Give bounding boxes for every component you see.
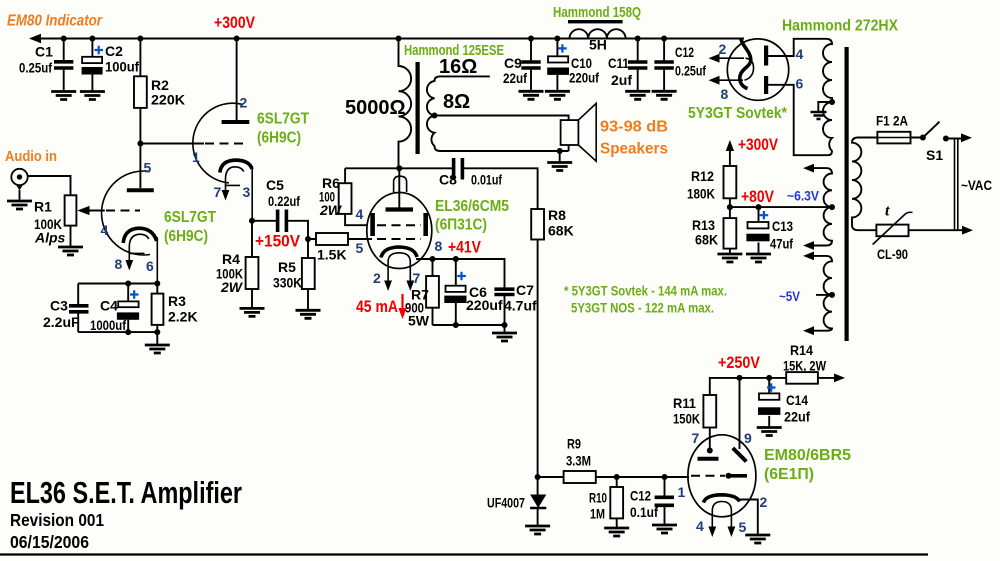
svg-text:2uf: 2uf (611, 72, 632, 88)
ground R5 (296, 310, 321, 318)
node rail-C9 (528, 36, 534, 42)
svg-text:C1: C1 (35, 44, 53, 60)
ground C13 (746, 254, 771, 262)
svg-text:C14: C14 (786, 392, 808, 408)
ground UF4007 (525, 526, 550, 534)
svg-text:Speakers: Speakers (600, 141, 668, 158)
capacitor C12 0.1uf (664, 477, 666, 525)
svg-text:5: 5 (739, 519, 747, 535)
svg-text:7: 7 (214, 184, 222, 200)
svg-text:C11: C11 (608, 55, 629, 71)
wire +300V rail (31, 38, 744, 40)
PT HV winding (823, 39, 832, 155)
svg-text:C12: C12 (675, 44, 694, 60)
choke core (568, 20, 623, 23)
svg-text:+300V: +300V (738, 135, 779, 154)
V1a plate lead (139, 144, 141, 189)
svg-text:3.3M: 3.3M (566, 453, 591, 469)
capacitor C11 2uf (637, 39, 639, 61)
EL36 plate lead (398, 168, 400, 207)
PT 5V winding (812, 256, 832, 331)
node R10 top (614, 474, 620, 480)
node pin9 (737, 375, 743, 381)
resistor R2 220K (139, 39, 141, 144)
svg-text:2: 2 (373, 270, 381, 286)
svg-text:5W: 5W (408, 313, 430, 329)
ground C10 (545, 91, 570, 99)
svg-text:5: 5 (356, 240, 364, 256)
ground R3 (145, 345, 170, 353)
svg-text:~VAC: ~VAC (961, 177, 992, 193)
svg-text:R12: R12 (691, 168, 714, 184)
capacitor C9 22uf (530, 39, 532, 61)
ground R10 (604, 528, 629, 536)
svg-text:22uf: 22uf (784, 409, 810, 425)
ground C11 (625, 91, 650, 99)
V1a plate (127, 188, 154, 192)
ground C14 (757, 428, 782, 436)
capacitor C10 220uf (556, 39, 558, 57)
svg-text:1: 1 (678, 484, 686, 500)
svg-text:2W: 2W (220, 279, 244, 295)
svg-text:C7: C7 (516, 282, 534, 298)
capacitor C2 100uf (91, 39, 93, 57)
svg-text:(6H9C): (6H9C) (257, 130, 301, 147)
capacitor C14 22uf (768, 378, 770, 428)
V1b cathode (220, 160, 252, 172)
svg-text:2W: 2W (319, 202, 343, 218)
node rail-C1 (61, 36, 67, 42)
5Y3 plate pin 4 (764, 46, 768, 66)
capacitor C7 4.7uf (494, 289, 514, 294)
EL36 plate (386, 207, 414, 211)
svg-text:16Ω: 16Ω (439, 56, 477, 78)
triode V1b 6SL7GT envelope (193, 103, 243, 183)
resistor R14 15K 2W (786, 372, 818, 384)
svg-text:68K: 68K (695, 232, 718, 248)
diode UF4007 (537, 477, 539, 526)
EM80 grid (dashed) (691, 475, 725, 477)
capacitor C5 0.22uf (252, 221, 308, 239)
5Y3 filament arrows pins 2,8 (713, 57, 744, 59)
5Y3 plate pin 6 (764, 76, 768, 94)
EL36 top cap (394, 176, 407, 192)
switch S1 (920, 135, 926, 141)
node speaker ground (557, 148, 563, 154)
svg-text:6SL7GT: 6SL7GT (257, 111, 309, 128)
choke Hammond 158Q 5H (570, 29, 626, 38)
ground EM80 cathode (745, 535, 770, 543)
resistor R7 900 5W (432, 259, 434, 325)
svg-text:68K: 68K (548, 223, 574, 239)
svg-text:C4: C4 (100, 298, 118, 314)
resistor R11 150K (703, 395, 716, 428)
svg-text:R3: R3 (168, 293, 186, 309)
svg-text:R9: R9 (567, 436, 581, 452)
svg-text:Hammond 158Q: Hammond 158Q (553, 4, 641, 21)
capacitor C3 2.2uF (77, 284, 79, 333)
svg-text:220K: 220K (151, 92, 185, 108)
ground C12b (652, 525, 677, 533)
capacitor C4 1000uf (127, 284, 129, 333)
svg-text:5000Ω: 5000Ω (345, 97, 406, 119)
EL36 cathode (381, 247, 417, 258)
node rail-V1b plate (234, 36, 240, 42)
node C12b top (662, 474, 668, 480)
EL36 grid1 (dashed) pin 5 (368, 238, 373, 240)
svg-text:+250V: +250V (718, 353, 761, 372)
node UF4007 (535, 474, 541, 480)
ground C2 (80, 92, 105, 100)
svg-text:EL36/6CM5: EL36/6CM5 (435, 198, 509, 215)
svg-text:0.22uf: 0.22uf (268, 193, 300, 209)
node rail-R2 (137, 36, 143, 42)
svg-text:UF4007: UF4007 (487, 495, 525, 511)
svg-text:4: 4 (796, 46, 804, 62)
PT 6.3V winding (812, 168, 832, 245)
svg-text:4: 4 (101, 222, 109, 238)
svg-text:2.2K: 2.2K (168, 309, 198, 325)
V1b plate (222, 120, 250, 124)
wire jack to R1 (28, 176, 71, 195)
wire 6.3V tap to +80V (730, 206, 832, 208)
svg-text:1000uf: 1000uf (90, 317, 126, 333)
resistor R8 68K (531, 209, 544, 240)
svg-text:3: 3 (243, 184, 251, 200)
wire V1a plate to V1b grid (140, 143, 204, 145)
EL36 grid2 (dashed) pin 4 (377, 224, 421, 226)
wiper arrow R1 (86, 210, 105, 212)
speaker (561, 120, 579, 145)
svg-text:S1: S1 (926, 147, 943, 163)
resistor R9 3.3M (538, 476, 665, 478)
node HV center tap (829, 99, 835, 105)
V1a bottom wire (78, 331, 157, 333)
node R3 top (154, 281, 160, 287)
node C7 ground (502, 322, 508, 328)
svg-text:8: 8 (435, 238, 443, 254)
resistor R5 330K (307, 239, 309, 310)
node C6 top (453, 256, 459, 262)
svg-text:Alps: Alps (34, 230, 66, 246)
svg-text:45 mA: 45 mA (356, 297, 398, 316)
svg-text:330K: 330K (273, 275, 302, 291)
node R7 top (430, 256, 436, 262)
resistor R13 68K (729, 207, 731, 254)
pentode EL36 envelope (367, 193, 432, 269)
EM80 grid wire (665, 476, 690, 478)
svg-text:EL36 S.E.T. Amplifier: EL36 S.E.T. Amplifier (10, 475, 242, 510)
ground EL36 cathode (492, 333, 517, 341)
node C5/R5/1.5K (305, 236, 311, 242)
EL36 cathode bottom wire (433, 324, 505, 326)
svg-text:06/15/2006: 06/15/2006 (10, 532, 89, 552)
wire R6 to plate node (345, 167, 399, 169)
V1b heater (226, 167, 244, 194)
svg-text:2: 2 (240, 95, 248, 111)
svg-text:0.1uf: 0.1uf (630, 504, 658, 520)
EM80 heater (712, 502, 731, 532)
ground RCA (7, 201, 32, 209)
EM80 cathode lead pin 2 (739, 500, 758, 536)
node +80V (727, 204, 733, 210)
svg-text:1.5K: 1.5K (317, 247, 347, 263)
V1b plate lead (236, 39, 238, 121)
svg-text:(6Е1П): (6Е1П) (764, 466, 814, 483)
EM80 target pin 9 (739, 378, 741, 449)
node EL36 plate (396, 165, 402, 171)
PT core (845, 47, 849, 341)
node C6 bottom (453, 322, 459, 328)
svg-text:+41V: +41V (448, 238, 482, 257)
svg-text:t: t (885, 203, 890, 220)
EM80 cathode (704, 495, 740, 503)
svg-text:~6.3V: ~6.3V (787, 189, 819, 204)
node 8ohm tap (432, 113, 438, 119)
OT secondary winding (427, 76, 569, 151)
svg-text:EM80 Indicator: EM80 Indicator (7, 13, 103, 30)
svg-text:7: 7 (413, 270, 421, 286)
svg-text:7: 7 (692, 430, 700, 446)
svg-text:6: 6 (796, 76, 804, 92)
resistor R6 100 2W (345, 168, 367, 225)
node rail-C12 (661, 36, 667, 42)
potentiometer R1 100K (65, 195, 77, 225)
svg-text:(6H9C): (6H9C) (164, 228, 208, 245)
node C4 top (125, 281, 131, 287)
svg-text:C8: C8 (439, 172, 457, 188)
svg-text:EM80/6BR5: EM80/6BR5 (764, 447, 851, 464)
svg-text:2: 2 (719, 41, 727, 57)
svg-text:C2: C2 (105, 43, 123, 59)
svg-text:220uf: 220uf (466, 297, 503, 313)
resistor 1.5K grid stopper (308, 238, 368, 240)
wire +250V bus (710, 378, 835, 395)
svg-text:Audio in: Audio in (5, 148, 57, 165)
svg-text:8: 8 (115, 256, 123, 272)
arrow to EM80 indicator (29, 34, 41, 44)
svg-text:8: 8 (721, 86, 729, 102)
svg-text:9: 9 (744, 430, 752, 446)
svg-text:100uf: 100uf (105, 59, 139, 75)
capacitor C1 (63, 39, 65, 61)
node V1b cathode / C5 (249, 218, 255, 224)
svg-text:C12: C12 (630, 488, 651, 504)
node rail-C2 (89, 36, 95, 42)
mains cord double line (955, 139, 958, 232)
ground C1 (51, 92, 76, 100)
capacitor C13 47uf (758, 207, 760, 254)
svg-text:2.2uF: 2.2uF (43, 314, 80, 330)
svg-text:4: 4 (356, 206, 364, 222)
OT core (416, 62, 420, 154)
svg-text:R8: R8 (548, 207, 566, 223)
svg-text:15K, 2W: 15K, 2W (783, 358, 827, 374)
node R2-plate junction (137, 141, 143, 147)
svg-text:93-98 dB: 93-98 dB (600, 119, 668, 136)
svg-text:22uf: 22uf (503, 70, 527, 86)
svg-text:~5V: ~5V (779, 289, 800, 304)
ground R4 (240, 308, 265, 316)
svg-text:Revision 001: Revision 001 (10, 510, 104, 530)
ground R13 (717, 254, 742, 262)
V1a grid (dashed) (106, 210, 140, 212)
resistor R10 1M (616, 477, 618, 528)
thermistor CL-90 (858, 229, 963, 231)
node rail-C11 (635, 36, 641, 42)
tube EM80 envelope (688, 435, 756, 517)
svg-text:F1 2A: F1 2A (876, 113, 908, 129)
V1b grid (dashed) (205, 143, 246, 145)
svg-text:5Y3GT NOS - 122 mA max.: 5Y3GT NOS - 122 mA max. (571, 301, 714, 316)
svg-text:180K: 180K (687, 186, 715, 202)
ground C9 (519, 91, 544, 99)
V1a heater (129, 234, 149, 264)
svg-text:R5: R5 (278, 259, 296, 275)
5Y3 filament (740, 39, 751, 89)
svg-text:C13: C13 (772, 218, 793, 234)
node rail-C10 (554, 36, 560, 42)
svg-text:5: 5 (144, 160, 152, 176)
EL36 beam plates (370, 213, 375, 236)
svg-text:1: 1 (192, 149, 200, 165)
resistor R12 180K (729, 166, 731, 207)
bottom border line (0, 553, 928, 555)
EL36 cathode lead pin 8 (416, 259, 505, 288)
resistor R3 2.2K (156, 284, 158, 346)
node C14 top (766, 375, 772, 381)
svg-text:47uf: 47uf (770, 236, 793, 252)
node C4 bottom (125, 329, 131, 335)
svg-text:2: 2 (760, 494, 768, 510)
triode V1a 6SL7GT envelope (102, 171, 150, 255)
V1a cathode (123, 228, 156, 243)
svg-text:8Ω: 8Ω (443, 91, 470, 113)
rectifier 5Y3GT envelope (727, 39, 788, 100)
node 6.3V tap (829, 204, 835, 210)
EM80 triode plate pin 7 (698, 457, 719, 461)
svg-text:0.25uf: 0.25uf (19, 60, 52, 76)
ground R1 (58, 247, 83, 255)
svg-text:+80V: +80V (741, 187, 775, 206)
PT primary winding (852, 138, 861, 231)
svg-text:R11: R11 (673, 395, 696, 411)
svg-text:5H: 5H (589, 37, 607, 53)
svg-text:220uf: 220uf (569, 70, 599, 86)
svg-text:6SL7GT: 6SL7GT (164, 209, 216, 226)
node R3 bottom (154, 329, 160, 335)
EL36 heater (388, 253, 410, 285)
svg-text:Hammond 272HX: Hammond 272HX (782, 18, 898, 35)
wire 8ohm tap to speaker (435, 116, 569, 121)
svg-text:4.7uf: 4.7uf (504, 298, 537, 314)
resistor R4 100K 2W (251, 221, 253, 309)
svg-text:+150V: +150V (255, 232, 301, 251)
node C13 top (756, 204, 762, 210)
RCA jack (11, 169, 27, 185)
svg-text:4: 4 (696, 518, 704, 534)
svg-text:CL-90: CL-90 (877, 246, 908, 262)
ground speaker (547, 163, 572, 171)
svg-text:(6П31С): (6П31С) (435, 217, 487, 234)
svg-text:R1: R1 (34, 199, 52, 215)
OT primary winding 5000ohm (399, 39, 412, 169)
svg-text:150K: 150K (673, 411, 700, 427)
capacitor C8 0.01uf (399, 168, 537, 209)
svg-text:C3: C3 (50, 298, 68, 314)
svg-text:* 5Y3GT Sovtek - 144 mA max.: * 5Y3GT Sovtek - 144 mA max. (564, 284, 727, 299)
svg-text:0.25uf: 0.25uf (675, 63, 706, 79)
node EM80 grid deflector (726, 473, 732, 479)
svg-text:C5: C5 (266, 177, 284, 193)
svg-text:R10: R10 (589, 490, 607, 506)
ground HV center tap (818, 102, 832, 112)
node rail-OT primary (396, 36, 402, 42)
svg-text:5Y3GT Sovtek*: 5Y3GT Sovtek* (688, 105, 788, 122)
capacitor C6 220uf (455, 259, 457, 325)
ground C12 (652, 91, 677, 99)
node 5V tap (829, 292, 835, 298)
fuse F1 2A (858, 137, 920, 139)
svg-text:C9: C9 (504, 55, 522, 71)
svg-text:+300V: +300V (214, 13, 256, 32)
svg-text:6: 6 (146, 258, 154, 274)
svg-text:R14: R14 (790, 342, 813, 358)
V1a cathode network top wire (78, 283, 157, 285)
capacitor C12 0.25uf (663, 39, 665, 61)
svg-text:0.01uf: 0.01uf (471, 172, 502, 188)
svg-text:1M: 1M (590, 506, 605, 522)
